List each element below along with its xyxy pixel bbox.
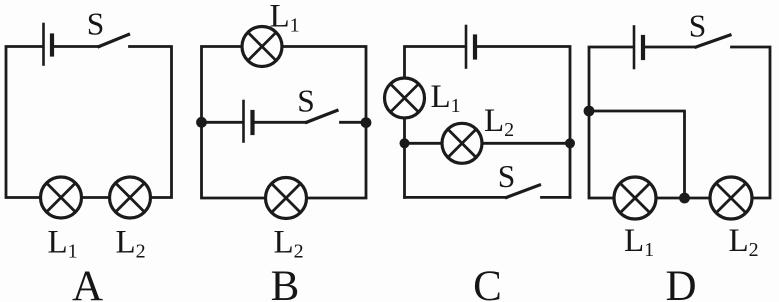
lamp L1 (circuit A): [41, 177, 82, 218]
wire C top right and right side: [477, 47, 570, 198]
wire A left loop: [6, 47, 42, 198]
wire A between lamps: [82, 196, 110, 199]
switch S lever (circuit C): [507, 185, 540, 197]
svg-text:C: C: [473, 263, 502, 302]
node dot bottom (circuit D): [679, 193, 690, 204]
node dot right (circuit C): [565, 138, 575, 148]
svg-text:L1: L1: [431, 79, 461, 117]
svg-text:D: D: [665, 263, 696, 302]
svg-text:L1: L1: [270, 0, 300, 37]
wire C left vertical below lamp: [403, 118, 406, 197]
wire D switch to right side: [732, 47, 771, 198]
svg-text:L2: L2: [116, 225, 146, 263]
switch S lever (circuit A): [99, 35, 129, 47]
battery (circuit C): [466, 26, 475, 68]
node dot on left wire (circuit D): [584, 106, 595, 117]
wire D between L1 and node: [656, 197, 710, 200]
switch S lever (circuit D): [696, 35, 730, 47]
lamp L1 (circuit B): [242, 27, 282, 67]
wire B left side: [202, 47, 266, 199]
lamp L2 (circuit A): [110, 177, 151, 218]
wire B switch contact to node: [341, 121, 367, 124]
node dot right (circuit B): [361, 117, 372, 128]
battery (circuit B): [244, 101, 253, 142]
svg-text:S: S: [498, 159, 516, 194]
battery (circuit A): [44, 24, 53, 65]
lamp L1 (circuit C): [385, 78, 425, 118]
wire B middle left: [202, 121, 243, 124]
svg-text:L1: L1: [624, 223, 654, 261]
node dot left (circuit B): [196, 117, 207, 128]
lamp L1 (circuit D): [614, 177, 656, 219]
svg-text:B: B: [271, 263, 300, 302]
wire C top left: [405, 47, 465, 79]
svg-text:S: S: [689, 9, 707, 44]
svg-text:L2: L2: [729, 223, 759, 261]
lamp L2 (circuit B): [266, 178, 307, 219]
wire C middle left: [405, 142, 443, 145]
svg-text:S: S: [297, 84, 315, 119]
wire B battery to switch: [255, 121, 307, 124]
lamp L2 (circuit D): [710, 177, 752, 219]
svg-text:A: A: [72, 263, 103, 302]
wire C middle right: [482, 142, 570, 145]
svg-text:S: S: [87, 7, 105, 42]
svg-text:L1: L1: [48, 225, 78, 263]
wire C bottom left: [405, 196, 507, 199]
switch S lever (circuit B): [307, 111, 338, 123]
wire D battery to switch: [645, 46, 696, 49]
wire D inner bypass: [589, 111, 685, 198]
node dot left (circuit C): [400, 138, 410, 148]
svg-text:L2: L2: [274, 225, 304, 263]
lamp L2 (circuit C): [442, 123, 482, 163]
svg-text:L2: L2: [484, 103, 514, 141]
battery (circuit D): [634, 27, 643, 69]
wire A battery to switch: [54, 45, 99, 48]
wire B top right side: [282, 47, 366, 199]
wire C switch contact to corner: [542, 196, 571, 199]
wire A switch to right side down: [130, 47, 172, 198]
wire D left side: [589, 47, 632, 198]
